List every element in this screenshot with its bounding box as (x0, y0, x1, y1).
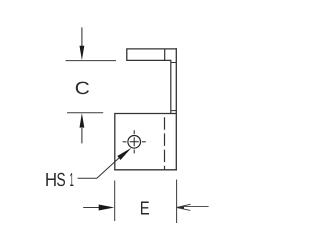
label HS1 (46, 173, 55, 186)
dimension C upper extension line (66, 60, 116, 62)
dimension E right extension line (176, 180, 178, 224)
hole quadrant tick top (133, 130, 135, 134)
flange bend divider line (164, 49, 166, 61)
dimension C upper arrowhead (down) (80, 46, 85, 60)
bracket web left edge (170, 60, 172, 113)
dimension E left extension line (114, 181, 116, 222)
dimension C lower arrow shaft (81, 128, 83, 143)
dimension C upper arrow shaft (81, 27, 83, 46)
label E (141, 202, 149, 215)
hole quadrant tick bottom (133, 150, 135, 154)
web bend tick lower (171, 110, 177, 112)
web bend tick upper (171, 62, 177, 64)
dimension E right arrow shaft (184, 205, 209, 207)
bracket right edge (flange to body bottom) (175, 49, 177, 170)
bracket HS1 top flange outline (127, 49, 177, 61)
dimension E right arrowhead slender fill (177, 206, 184, 208)
dimension E left arrow shaft (83, 207, 99, 209)
hole center mark cross (130, 137, 139, 146)
label C (76, 82, 89, 95)
hole quadrant tick left (123, 141, 127, 143)
dimension E right open arrowhead barbs (177, 204, 191, 210)
hidden bend line (dashed) inside body (164, 114, 166, 170)
leader arrowhead at hole (117, 148, 131, 160)
leader line from HS1 to hole (78, 158, 119, 178)
mounting hole circle (128, 136, 141, 149)
dimension E left arrowhead (right) (99, 205, 115, 211)
bracket body plate outline (115, 114, 177, 170)
dimension C lower arrowhead (up) (80, 113, 85, 128)
hole quadrant tick right (142, 141, 146, 143)
dimension C lower extension line (67, 112, 103, 114)
